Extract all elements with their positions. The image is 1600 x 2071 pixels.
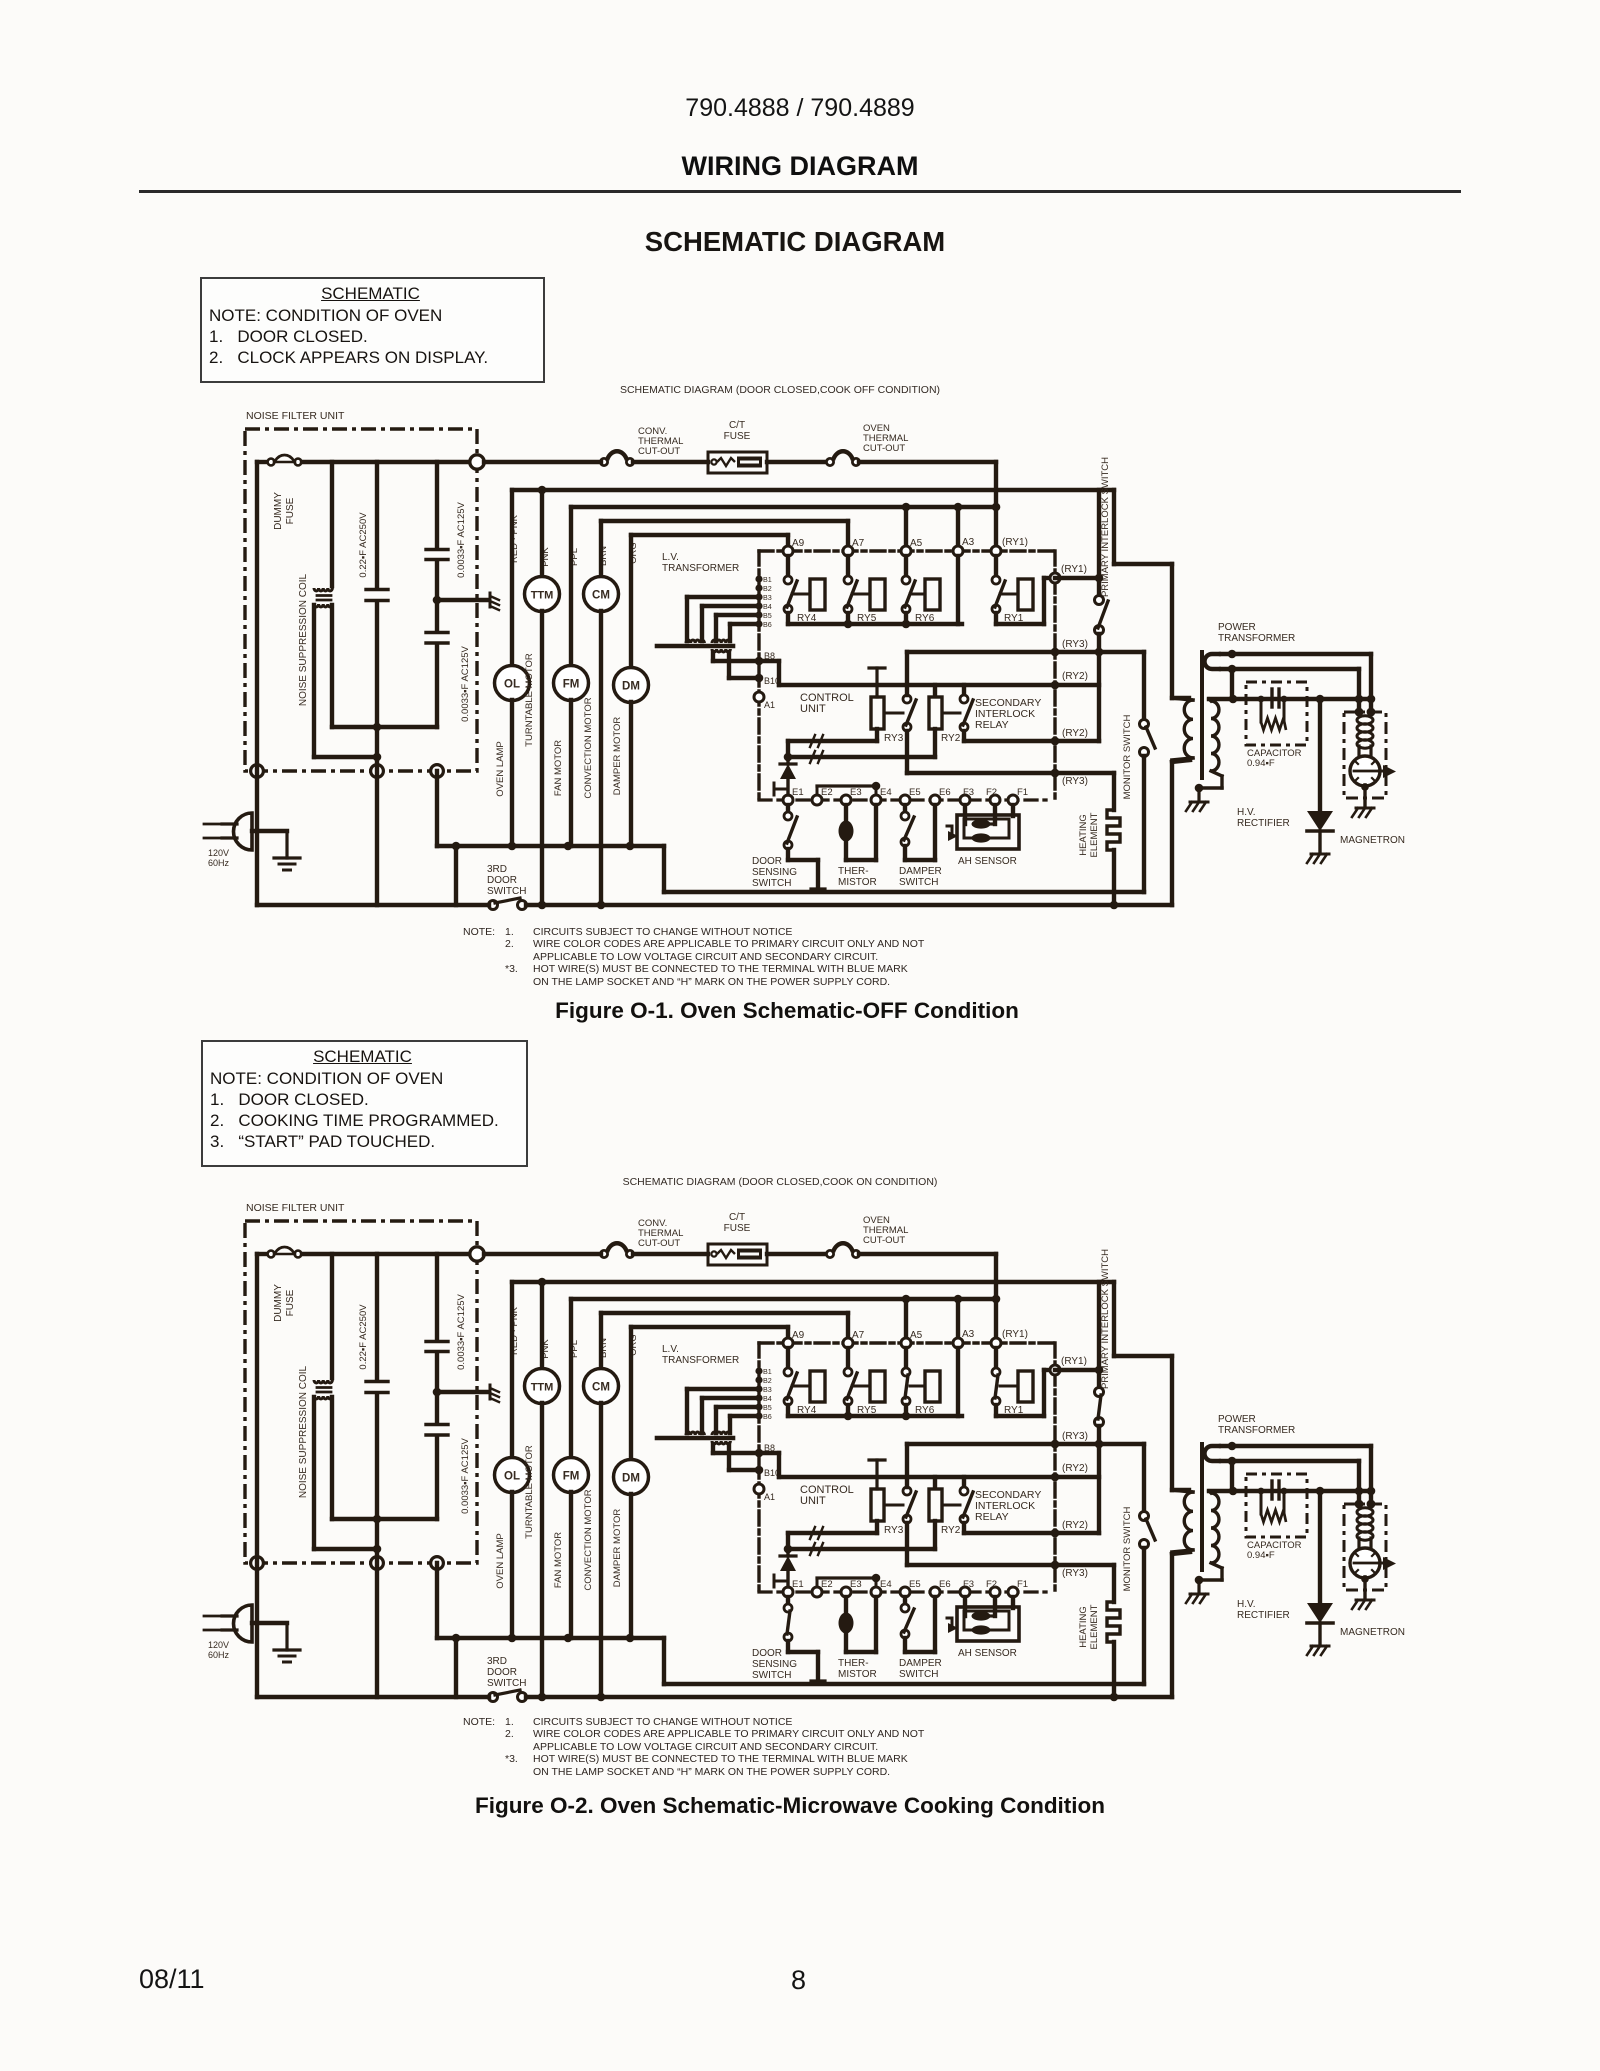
HV capacitor box <box>1246 682 1307 769</box>
terminals E1-F1 <box>783 787 1028 805</box>
svg-text:TRANSFORMER: TRANSFORMER <box>1218 1425 1295 1436</box>
primary interlock switch <box>1095 1249 1112 1533</box>
svg-text:E4: E4 <box>880 1579 892 1590</box>
svg-text:B1: B1 <box>763 575 772 584</box>
wire RY3 coil return <box>875 729 879 741</box>
relay coil RY2 <box>929 697 961 744</box>
wire RY1 coil return <box>996 622 1044 626</box>
node filter output <box>470 455 484 469</box>
svg-text:0.0033▪F AC125V: 0.0033▪F AC125V <box>456 501 467 577</box>
svg-text:3RD: 3RD <box>487 864 507 875</box>
bottom bus right <box>526 903 1172 907</box>
relay coil RY3 <box>869 1460 904 1536</box>
svg-text:A1: A1 <box>764 700 775 710</box>
svg-text:RY3: RY3 <box>884 1525 904 1536</box>
svg-text:TURNTABLE MOTOR: TURNTABLE MOTOR <box>524 653 535 747</box>
svg-text:B3: B3 <box>763 1385 772 1394</box>
wire transformer primary return <box>1170 762 1174 905</box>
wire RY3 contact to (RY3) row <box>905 652 909 695</box>
terminal A5 <box>901 1338 911 1348</box>
relay RY1 <box>992 556 1033 624</box>
svg-text:H.V.: H.V. <box>1237 807 1256 818</box>
svg-text:B4: B4 <box>763 1394 772 1403</box>
node (RY3) right edge <box>1051 1440 1060 1449</box>
bus DM to A9 <box>631 1325 788 1329</box>
diode door sensing <box>774 1549 796 1587</box>
node on filter bottom edge mid <box>371 1557 384 1570</box>
wire secondary return to ground <box>1211 1563 1222 1568</box>
svg-text:SWITCH: SWITCH <box>752 1670 791 1681</box>
node (RY2) right edge <box>1051 681 1060 690</box>
fan motor FM <box>553 1299 589 1638</box>
terminal A1 <box>754 692 764 702</box>
svg-text:0.94▪F: 0.94▪F <box>1247 1550 1275 1561</box>
svg-text:ELEMENT: ELEMENT <box>1089 812 1100 857</box>
terminal (RY1) right edge <box>1050 1365 1060 1375</box>
svg-text:MISTOR: MISTOR <box>838 1669 877 1680</box>
svg-text:F1: F1 <box>1017 787 1028 798</box>
wire B3 to LV primary <box>687 1387 759 1391</box>
svg-text:HEATING: HEATING <box>1078 814 1089 856</box>
svg-text:60Hz: 60Hz <box>208 858 230 868</box>
svg-text:B5: B5 <box>763 1403 772 1412</box>
svg-text:A1: A1 <box>764 1492 775 1502</box>
figure O-1 oven schematic OFF condition <box>204 410 1405 910</box>
relay RY4 <box>784 556 825 624</box>
wire A5 riser <box>904 507 908 546</box>
svg-text:RECTIFIER: RECTIFIER <box>1237 1610 1290 1621</box>
node (RY3) right edge <box>1051 648 1060 657</box>
svg-text:FM: FM <box>563 679 580 691</box>
svg-text:B6: B6 <box>763 1412 772 1421</box>
HV rectifier diode <box>1237 699 1333 863</box>
svg-text:UNIT: UNIT <box>800 703 826 715</box>
svg-text:OL: OL <box>504 1471 520 1483</box>
magnetron <box>1340 708 1405 846</box>
wire cap midpoint to chassis ground <box>437 598 488 602</box>
svg-text:(RY1): (RY1) <box>1061 1356 1087 1367</box>
svg-text:(RY1): (RY1) <box>1002 1329 1028 1340</box>
relay RY4 <box>784 1348 825 1416</box>
svg-text:TRANSFORMER: TRANSFORMER <box>662 563 739 574</box>
svg-text:(RY1): (RY1) <box>1061 564 1087 575</box>
page footer <box>139 1964 205 1995</box>
svg-text:F2: F2 <box>986 1579 997 1590</box>
svg-text:NOISE SUPPRESSION COIL: NOISE SUPPRESSION COIL <box>298 1365 309 1498</box>
svg-text:A7: A7 <box>852 1330 865 1341</box>
wire A3 riser <box>956 507 960 546</box>
svg-text:SWITCH: SWITCH <box>899 1669 938 1680</box>
node on filter bottom edge left <box>251 1557 264 1570</box>
relay RY5 <box>844 1348 885 1416</box>
switch RY3 <box>903 695 911 703</box>
damper motor DM <box>612 1327 649 1638</box>
svg-text:OVEN LAMP: OVEN LAMP <box>495 1533 506 1588</box>
svg-text:DOOR: DOOR <box>752 856 782 867</box>
node (RY2) lower right edge <box>1051 737 1060 746</box>
switch RY2 <box>960 1487 968 1495</box>
svg-text:E6: E6 <box>939 787 951 798</box>
bus FM-A5-A3 to RY1 feed <box>571 505 996 509</box>
svg-text:ELEMENT: ELEMENT <box>1089 1604 1100 1649</box>
wire B3 to LV primary <box>687 595 759 599</box>
bus CM to A7 <box>601 1311 848 1315</box>
wire B4 to LV primary <box>702 1396 759 1400</box>
wire RY3 coil return <box>875 1521 879 1533</box>
terminal A7 <box>843 546 853 556</box>
dummy fuse F2 <box>268 1247 302 1322</box>
bottom bus left <box>257 903 489 907</box>
note box figure O-1 <box>200 277 545 383</box>
svg-text:FM: FM <box>563 1471 580 1483</box>
wire A3 to relay return <box>956 556 960 624</box>
heating element <box>1078 1565 1120 1701</box>
svg-text:E4: E4 <box>880 787 892 798</box>
AC plug 120V 60Hz <box>204 813 252 868</box>
svg-text:(RY2): (RY2) <box>1062 1463 1088 1474</box>
svg-text:DAMPER: DAMPER <box>899 866 942 877</box>
wire bus corner to transformer primary <box>1112 490 1116 564</box>
node on filter bottom edge left <box>251 765 264 778</box>
diode door sensing <box>774 757 796 795</box>
svg-text:F2: F2 <box>986 787 997 798</box>
filament lead upper <box>1221 1444 1371 1448</box>
switch RY3 <box>903 1487 911 1495</box>
bus lamp-TTM to primary interlock <box>512 1280 1114 1284</box>
monitor switch <box>1122 1444 1155 1684</box>
conv thermal cut-out <box>600 1250 607 1257</box>
svg-text:OVEN LAMP: OVEN LAMP <box>495 741 506 796</box>
chassis ground at filter <box>490 593 499 610</box>
capacitor 0.22uF AC250V <box>358 462 388 761</box>
noise suppression coil <box>298 462 377 757</box>
svg-text:E5: E5 <box>909 787 921 798</box>
bus FM-A5-A3 to RY1 feed <box>571 1297 996 1301</box>
wire A3 to relay return <box>956 1348 960 1416</box>
wire B5 to LV primary <box>716 613 759 617</box>
svg-text:CONVECTION MOTOR: CONVECTION MOTOR <box>583 697 594 798</box>
svg-text:SWITCH: SWITCH <box>487 1678 526 1689</box>
lower return line <box>664 890 1144 894</box>
schematic subtitle O-1 <box>0 384 1560 396</box>
svg-text:E6: E6 <box>939 1579 951 1590</box>
svg-text:E5: E5 <box>909 1579 921 1590</box>
svg-text:SENSING: SENSING <box>752 1659 797 1670</box>
oven thermal cut-out <box>826 1250 833 1257</box>
svg-text:FUSE: FUSE <box>285 497 296 524</box>
capacitor 0.0033uF AC125V lower <box>332 633 471 728</box>
wire cap midpoint to chassis ground <box>437 1390 488 1394</box>
wire secondary return to ground <box>1211 771 1222 776</box>
svg-text:THER-: THER- <box>838 1658 869 1669</box>
wire B6 to LV primary <box>730 1414 759 1418</box>
earth ground of supply <box>285 1623 288 1650</box>
svg-text:TRANSFORMER: TRANSFORMER <box>662 1355 739 1366</box>
terminal A1 <box>754 1484 764 1494</box>
svg-text:DAMPER: DAMPER <box>899 1658 942 1669</box>
svg-text:A5: A5 <box>910 538 923 549</box>
svg-text:B3: B3 <box>763 593 772 602</box>
wire L-line into filter <box>257 1252 268 1256</box>
svg-text:NOISE SUPPRESSION COIL: NOISE SUPPRESSION COIL <box>298 573 309 706</box>
wire RY2 contact bottom to (RY2) lower row <box>962 1523 966 1533</box>
svg-text:0.22▪F AC250V: 0.22▪F AC250V <box>358 512 369 578</box>
svg-text:RECTIFIER: RECTIFIER <box>1237 818 1290 829</box>
svg-text:CM: CM <box>592 590 610 602</box>
svg-text:UNIT: UNIT <box>800 1495 826 1507</box>
bus CM to A7 <box>601 519 848 523</box>
svg-text:0.0033▪F AC125V: 0.0033▪F AC125V <box>460 645 471 721</box>
link E2 to E4 <box>817 1576 876 1579</box>
svg-text:E1: E1 <box>792 787 804 798</box>
svg-text:CUT-OUT: CUT-OUT <box>863 1235 905 1246</box>
wire LV secondary to B8 <box>711 652 715 661</box>
svg-text:C/T: C/T <box>729 1212 745 1223</box>
filament lead lower <box>1221 1459 1359 1463</box>
svg-text:SWITCH: SWITCH <box>752 878 791 889</box>
capacitor 0.0033uF AC125V lower <box>332 1425 471 1520</box>
wire oven cutout to RY1 feed corner <box>859 460 996 464</box>
svg-text:C/T: C/T <box>729 420 745 431</box>
svg-text:0.94▪F: 0.94▪F <box>1247 758 1275 769</box>
wire B6 to LV primary <box>730 622 759 626</box>
svg-text:F1: F1 <box>1017 1579 1028 1590</box>
bus DM to A9 <box>631 533 788 537</box>
lamp and motor return line <box>437 844 664 848</box>
thermistor <box>838 1597 877 1680</box>
wire node to conv cutout <box>484 1252 601 1256</box>
wire transformer primary return <box>1170 1554 1174 1697</box>
svg-text:(RY3): (RY3) <box>1062 639 1088 650</box>
wire B5 to LV primary <box>716 1405 759 1409</box>
svg-text:(RY1): (RY1) <box>1002 537 1028 548</box>
svg-text:NOISE FILTER UNIT: NOISE FILTER UNIT <box>246 1202 345 1214</box>
header model numbers <box>0 94 1600 123</box>
svg-text:DOOR: DOOR <box>487 1667 517 1678</box>
svg-text:(RY2): (RY2) <box>1062 728 1088 739</box>
svg-text:MAGNETRON: MAGNETRON <box>1340 1627 1405 1638</box>
node (RY2) lower right edge <box>1051 1529 1060 1538</box>
L.V. transformer <box>657 1344 739 1444</box>
svg-text:F3: F3 <box>963 787 974 798</box>
svg-text:B2: B2 <box>763 584 772 593</box>
wire node to conv cutout <box>484 460 601 464</box>
section title <box>0 226 1590 258</box>
svg-text:(RY3): (RY3) <box>1062 776 1088 787</box>
svg-text:DM: DM <box>622 681 640 693</box>
wire B8 feed to secondary interlock <box>759 659 779 663</box>
wire filament tap to HV line <box>1230 669 1234 699</box>
capacitor 0.22uF AC250V <box>358 1254 388 1553</box>
door sensing switch <box>752 1597 825 1681</box>
wire RY2 contact bottom to (RY2) lower row <box>962 731 966 741</box>
wire plug to left column <box>252 1621 287 1625</box>
wire LV secondary to B8 <box>711 1444 715 1453</box>
svg-text:OL: OL <box>504 679 520 691</box>
svg-text:POWER: POWER <box>1218 622 1256 633</box>
earth ground of supply <box>285 831 288 858</box>
convection motor CM <box>583 1313 619 1697</box>
oven thermal cut-out <box>826 458 833 465</box>
AH sensor <box>947 1597 1019 1659</box>
svg-text:DOOR: DOOR <box>752 1648 782 1659</box>
wire C/T fuse to oven cutout <box>767 1252 827 1256</box>
wire RY1 feed drop <box>994 462 998 546</box>
svg-text:L.V.: L.V. <box>662 1344 679 1355</box>
switch RY2 <box>960 695 968 703</box>
terminal (RY1) <box>991 546 1001 556</box>
damper motor DM <box>612 535 649 846</box>
relay RY6 <box>902 556 940 624</box>
wire RY1 coil return <box>996 1414 1044 1418</box>
note box figure O-2 <box>201 1040 528 1167</box>
svg-text:SENSING: SENSING <box>752 867 797 878</box>
svg-text:E1: E1 <box>792 1579 804 1590</box>
svg-text:L.V.: L.V. <box>662 552 679 563</box>
lamp and motor return line <box>437 1636 664 1640</box>
svg-text:AH SENSOR: AH SENSOR <box>958 1648 1017 1659</box>
svg-text:E2: E2 <box>821 1579 833 1590</box>
svg-text:(RY3): (RY3) <box>1062 1568 1088 1579</box>
filament lead upper <box>1221 652 1371 656</box>
page title <box>0 151 1600 182</box>
relay RY1 <box>992 1348 1033 1416</box>
svg-text:A5: A5 <box>910 1330 923 1341</box>
wire RY3 contact bottom to (RY3) lower row <box>905 1523 909 1565</box>
wire (RY1) row <box>1055 1368 1099 1372</box>
filament lead lower <box>1221 667 1359 671</box>
svg-text:DAMPER MOTOR: DAMPER MOTOR <box>612 717 623 796</box>
wire return drop x456 <box>454 846 458 905</box>
svg-text:RY3: RY3 <box>884 733 904 744</box>
capacitor 0.0033uF AC125V upper <box>426 462 467 631</box>
relay coil RY2 <box>929 1489 961 1536</box>
damper switch <box>899 805 942 888</box>
svg-text:(RY2): (RY2) <box>1062 671 1088 682</box>
svg-text:E2: E2 <box>821 787 833 798</box>
svg-text:120V: 120V <box>208 848 229 858</box>
wire RY2 coil return <box>933 729 937 757</box>
svg-text:B1: B1 <box>763 1367 772 1376</box>
terminal A9 <box>783 1338 793 1348</box>
wire RY1 feed drop <box>994 1254 998 1338</box>
wire return corner to lower return <box>662 1638 666 1684</box>
HV capacitor box <box>1246 1474 1307 1561</box>
svg-text:MISTOR: MISTOR <box>838 877 877 888</box>
svg-text:AH SENSOR: AH SENSOR <box>958 856 1017 867</box>
svg-text:TRANSFORMER: TRANSFORMER <box>1218 633 1295 644</box>
svg-text:CM: CM <box>592 1382 610 1394</box>
heating element <box>1078 773 1120 909</box>
relay RY6 <box>902 1348 940 1416</box>
primary interlock switch <box>1095 457 1112 741</box>
wire LV secondary to B10 <box>727 1444 731 1470</box>
svg-text:POWER: POWER <box>1218 1414 1256 1425</box>
terminal A5 <box>901 546 911 556</box>
figure O-2 caption <box>0 1793 1580 1819</box>
svg-text:TTM: TTM <box>531 1382 554 1394</box>
terminals E1-F1 <box>783 1579 1028 1597</box>
dummy fuse F2 <box>268 455 302 530</box>
wire left column to plug junction and bottom bus <box>255 1254 259 1697</box>
C/T fuse <box>708 1212 767 1265</box>
wire filament tap to HV line <box>1230 1461 1234 1491</box>
svg-text:TURNTABLE MOTOR: TURNTABLE MOTOR <box>524 1445 535 1539</box>
svg-text:DAMPER MOTOR: DAMPER MOTOR <box>612 1509 623 1588</box>
terminals B1-B6 <box>755 1367 771 1421</box>
svg-text:B2: B2 <box>763 1376 772 1385</box>
svg-text:RY2: RY2 <box>941 1525 961 1536</box>
AH sensor <box>947 805 1019 867</box>
svg-text:CUT-OUT: CUT-OUT <box>638 446 680 457</box>
terminal A9 <box>783 546 793 556</box>
svg-text:CUT-OUT: CUT-OUT <box>638 1238 680 1249</box>
wire mid column to bottom bus <box>375 1549 379 1697</box>
3rd door switch <box>487 1656 527 1702</box>
wire RY3 contact to (RY3) row <box>905 1444 909 1487</box>
bottom bus right <box>526 1695 1172 1699</box>
control unit boundary <box>759 551 1055 800</box>
svg-text:A9: A9 <box>792 1330 805 1341</box>
relay common return bus <box>788 1414 962 1418</box>
HV rectifier diode <box>1237 1491 1333 1655</box>
C/T fuse <box>708 420 767 473</box>
svg-text:SWITCH: SWITCH <box>899 877 938 888</box>
schematic subtitle O-2 <box>0 1176 1560 1188</box>
node filter output <box>470 1247 484 1261</box>
figure O-2 oven schematic cooking condition <box>204 1202 1405 1702</box>
svg-text:CUT-OUT: CUT-OUT <box>863 443 905 454</box>
magnetron <box>1340 1500 1405 1638</box>
relay RY5 <box>844 556 885 624</box>
wire B4 to LV primary <box>702 604 759 608</box>
capacitor 0.0033uF AC125V upper <box>426 1254 467 1423</box>
svg-text:NOISE FILTER UNIT: NOISE FILTER UNIT <box>246 410 345 422</box>
svg-text:B6: B6 <box>763 620 772 629</box>
svg-text:RY2: RY2 <box>941 733 961 744</box>
terminal (RY1) right edge <box>1050 573 1060 583</box>
wire left column to plug junction and bottom bus <box>255 462 259 905</box>
horizontal rule <box>139 190 1461 193</box>
figure O-1 caption <box>0 998 1574 1024</box>
chassis ground at filter <box>490 1385 499 1402</box>
svg-text:THER-: THER- <box>838 866 869 877</box>
node (RY2) right edge <box>1051 1473 1060 1482</box>
node (RY3) lower right edge <box>1051 769 1060 778</box>
svg-text:E3: E3 <box>850 787 862 798</box>
convection motor CM <box>583 521 619 905</box>
svg-text:DUMMY: DUMMY <box>273 492 284 530</box>
wire (RY1) row <box>1055 576 1099 580</box>
wire RY2 coil return <box>933 1521 937 1549</box>
svg-text:MONITOR SWITCH: MONITOR SWITCH <box>1122 1506 1133 1591</box>
terminals B1-B6 <box>755 575 771 629</box>
power transformer <box>1172 622 1295 778</box>
svg-text:B4: B4 <box>763 602 772 611</box>
svg-text:FUSE: FUSE <box>285 1289 296 1316</box>
node on filter bottom edge right <box>431 765 444 778</box>
svg-text:(RY3): (RY3) <box>1062 1431 1088 1442</box>
svg-text:(RY2): (RY2) <box>1062 1520 1088 1531</box>
svg-text:0.0033▪F AC125V: 0.0033▪F AC125V <box>456 1293 467 1369</box>
link E2 to E4 <box>817 784 876 787</box>
svg-text:FAN MOTOR: FAN MOTOR <box>553 1532 564 1588</box>
wire oven cutout to RY1 feed corner <box>859 1252 996 1256</box>
terminal A7 <box>843 1338 853 1348</box>
svg-text:RELAY: RELAY <box>975 1511 1009 1523</box>
wire RY3 contact bottom to (RY3) lower row <box>905 731 909 773</box>
svg-text:0.22▪F AC250V: 0.22▪F AC250V <box>358 1304 369 1370</box>
